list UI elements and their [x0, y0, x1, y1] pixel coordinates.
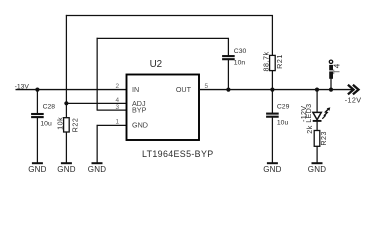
value -12V LED3: [299, 106, 308, 122]
ground under pin 1: [88, 163, 106, 174]
svg-text:GND: GND: [263, 165, 281, 174]
svg-text:C29: C29: [277, 103, 290, 110]
svg-text:R22: R22: [71, 118, 80, 133]
svg-text:-12V: -12V: [345, 95, 362, 104]
test point T4: [329, 60, 333, 90]
svg-text:LT1964ES5-BYP: LT1964ES5-BYP: [142, 149, 213, 159]
value 10u C28: [40, 120, 52, 127]
pin name GND: [132, 120, 148, 129]
wire LED to R23: [316, 121, 318, 131]
svg-text:GND: GND: [88, 165, 106, 174]
pin name BYP: [132, 106, 147, 115]
pin 1: [115, 119, 119, 126]
value 10u C29: [277, 120, 289, 127]
resistor R23: [314, 131, 320, 164]
wire C28 top: [36, 90, 38, 114]
wire C29 bottom: [271, 117, 273, 163]
label LED3: [304, 104, 313, 123]
svg-text:U2: U2: [150, 59, 163, 70]
junction ADJ / R22: [64, 101, 68, 105]
svg-text:IN: IN: [132, 85, 139, 94]
wire BYP top horizontal: [97, 37, 230, 39]
node -12V: [345, 95, 362, 104]
svg-text:GND: GND: [308, 165, 326, 174]
value 88.7k R21: [261, 51, 270, 71]
wire R21 top vertical: [271, 15, 273, 55]
wire OUT rail: [199, 89, 353, 91]
wire pin 1 GND vertical: [96, 125, 98, 163]
LED LED3: [313, 112, 322, 121]
junction T4 / OUT: [329, 88, 333, 92]
svg-text:88.7k: 88.7k: [261, 51, 270, 71]
ground under R23: [308, 163, 326, 174]
svg-text:R23: R23: [319, 131, 328, 146]
junction C30 / OUT: [226, 88, 230, 92]
junction LED / OUT: [315, 88, 319, 92]
junction C28: [35, 88, 39, 92]
capacitor C28: [31, 114, 44, 117]
resistor R21: [270, 55, 276, 89]
value 10n C30: [234, 60, 246, 67]
pin name ADJ: [132, 99, 146, 108]
wire ADJ net left vertical: [65, 15, 67, 103]
svg-text:C28: C28: [43, 103, 56, 110]
svg-text:T4: T4: [332, 63, 341, 75]
pin 5: [205, 83, 209, 90]
svg-text:C30: C30: [234, 48, 247, 55]
svg-text:GND: GND: [132, 120, 148, 129]
value 10k R22: [56, 117, 65, 130]
label C29: [277, 103, 290, 110]
wire ADJ horizontal to pin 4: [66, 102, 126, 104]
wire BYP to pin 3: [97, 109, 127, 111]
svg-text:LED3: LED3: [304, 104, 313, 123]
wire C30 vertical top: [227, 38, 229, 56]
svg-text:10n: 10n: [234, 60, 246, 67]
svg-text:2k: 2k: [305, 125, 314, 134]
junction R21 / C29 / OUT: [270, 88, 274, 92]
pin 2: [115, 83, 119, 90]
svg-text:10u: 10u: [40, 120, 52, 127]
svg-text:GND: GND: [28, 165, 46, 174]
wire BYP vertical: [96, 38, 98, 110]
svg-text:BYP: BYP: [132, 106, 147, 115]
wire -13V rail to IC pin IN: [16, 89, 127, 91]
label R22: [71, 118, 80, 133]
pin 3: [115, 104, 119, 111]
ground under C28: [28, 163, 46, 174]
value 2k R23: [305, 125, 314, 134]
node -13V: [15, 83, 30, 90]
svg-text:10k: 10k: [56, 117, 65, 130]
pin 4: [115, 97, 119, 104]
label T4: [332, 63, 341, 75]
capacitor C29: [266, 114, 279, 117]
ground under R22: [57, 163, 75, 174]
svg-text:OUT: OUT: [176, 85, 192, 94]
op-amp U2 box: [127, 75, 200, 141]
label R23: [319, 131, 328, 146]
value LT1964ES5-BYP: [142, 149, 213, 159]
capacitor C30: [222, 56, 235, 59]
wire pin 1 GND horizontal: [97, 124, 127, 126]
wire top net ADJ horizontal: [66, 14, 273, 16]
output arrow -12V: [348, 85, 359, 95]
svg-text:10u: 10u: [277, 120, 289, 127]
label C28: [43, 103, 56, 110]
wire LED top: [316, 90, 318, 113]
LED emission arrow: [322, 107, 330, 118]
svg-text:2: 2: [115, 83, 119, 90]
svg-text:GND: GND: [57, 165, 75, 174]
pin name OUT: [176, 85, 192, 94]
label R21: [275, 54, 284, 69]
wire C29 top: [271, 90, 273, 114]
svg-text:1: 1: [115, 119, 119, 126]
svg-text:R21: R21: [275, 54, 284, 69]
resistor R22: [64, 103, 70, 163]
wire C28 bottom: [36, 118, 38, 164]
pin name IN: [132, 85, 139, 94]
ground under C29: [263, 163, 281, 174]
label C30: [234, 48, 247, 55]
svg-text:3: 3: [115, 104, 119, 111]
label U2: [150, 59, 163, 70]
wire C30 vertical bottom: [227, 60, 229, 90]
